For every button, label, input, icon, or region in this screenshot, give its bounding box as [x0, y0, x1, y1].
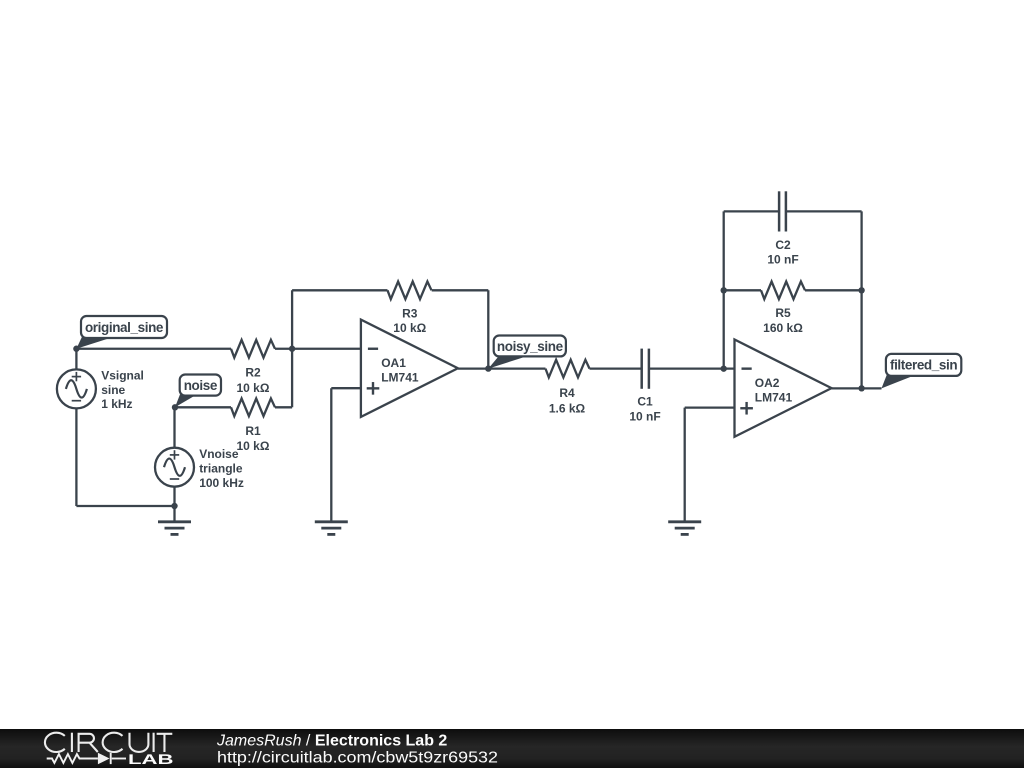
- wire Vsignal bottom: [75, 408, 77, 506]
- resistor R4: [546, 360, 590, 378]
- footer title text: [216, 732, 447, 749]
- wire OA2 right rail vertical: [860, 211, 862, 388]
- svg-text:Vsignal: Vsignal: [101, 368, 144, 382]
- node filtered_sin label: [882, 375, 917, 389]
- wire R5 right segment: [805, 289, 862, 291]
- svg-text:LM741: LM741: [381, 370, 419, 384]
- svg-text:10 nF: 10 nF: [629, 410, 660, 424]
- svg-text:OA2: OA2: [755, 376, 780, 390]
- svg-text:http://circuitlab.com/cbw5t9zr: http://circuitlab.com/cbw5t9zr69532: [217, 750, 498, 767]
- capacitor C2: [778, 191, 781, 231]
- wire Vnoise bottom: [173, 487, 175, 506]
- footer bar: [0, 729, 1024, 768]
- wire OA1 output: [458, 367, 546, 369]
- CircuitLab logo CIRCUIT text: [45, 733, 172, 752]
- svg-text:filtered_sin: filtered_sin: [890, 358, 957, 373]
- svg-text:10 kΩ: 10 kΩ: [237, 439, 270, 453]
- voltage source Vnoise: [155, 448, 194, 487]
- wire OA2 + to ground vertical: [684, 408, 686, 522]
- svg-text:R2: R2: [245, 366, 261, 380]
- node noisy_sine label: [488, 355, 530, 368]
- wire OA2 non-inverting input: [685, 406, 735, 408]
- wire OA1 non-inverting input: [331, 387, 361, 389]
- junction ground node: [171, 503, 177, 509]
- junction at R2 right / feedback node: [289, 346, 295, 352]
- junction original_sine node: [73, 346, 79, 352]
- svg-text:1.6 kΩ: 1.6 kΩ: [549, 401, 586, 415]
- wire R3 feedback top left: [292, 289, 387, 291]
- wire OA2 left rail vertical: [723, 211, 725, 368]
- wire R1 right segment: [275, 406, 292, 408]
- svg-text:LAB: LAB: [128, 751, 174, 767]
- svg-text:noise: noise: [184, 378, 218, 393]
- wire Vsignal top: [75, 349, 77, 370]
- wire Vnoise top: [173, 407, 175, 448]
- wire R2 to op-amp OA1 inverting input: [275, 348, 361, 350]
- svg-text:JamesRush / Electronics Lab 2: JamesRush / Electronics Lab 2: [216, 732, 447, 749]
- voltage source Vsignal: [57, 369, 96, 408]
- svg-text:1 kHz: 1 kHz: [101, 397, 132, 411]
- svg-text:R4: R4: [559, 386, 575, 400]
- footer url text: [217, 750, 498, 767]
- svg-text:sine: sine: [101, 383, 125, 397]
- junction noise node: [172, 404, 178, 410]
- junction R5 right: [858, 287, 864, 293]
- svg-text:OA1: OA1: [381, 356, 406, 370]
- wire bottom horizontal: [76, 505, 174, 507]
- wire ground stub: [173, 506, 175, 522]
- svg-text:original_sine: original_sine: [85, 320, 164, 335]
- node original_sine label: [76, 337, 114, 349]
- capacitor C1: [640, 349, 643, 389]
- junction OA2 inverting node: [721, 365, 727, 371]
- svg-text:triangle: triangle: [199, 462, 243, 476]
- node noise label: [175, 394, 197, 407]
- resistor R2: [231, 340, 275, 358]
- svg-text:R3: R3: [402, 307, 418, 321]
- svg-text:10 kΩ: 10 kΩ: [393, 321, 426, 335]
- wire OA2 output: [832, 387, 882, 389]
- svg-text:C1: C1: [637, 395, 653, 409]
- wire original_sine net to R2: [76, 348, 231, 350]
- wire C1 to OA2 inverting input: [649, 367, 735, 369]
- svg-text:LM741: LM741: [755, 390, 793, 404]
- svg-text:160 kΩ: 160 kΩ: [763, 321, 803, 335]
- resistor R3: [388, 282, 432, 300]
- wire R4 to C1: [590, 367, 642, 369]
- wire C2 top left: [724, 210, 779, 212]
- resistor R1: [231, 399, 275, 417]
- junction OA2 output node: [858, 385, 864, 391]
- wire C2 top right: [786, 210, 862, 212]
- svg-text:noisy_sine: noisy_sine: [497, 339, 564, 354]
- junction R5 left: [721, 287, 727, 293]
- svg-text:R1: R1: [245, 424, 261, 438]
- ground below OA2: [668, 520, 701, 523]
- wire R1 left segment: [175, 406, 231, 408]
- CircuitLab logo resistor-diode glyph: [47, 753, 126, 764]
- svg-text:10 kΩ: 10 kΩ: [237, 381, 270, 395]
- CircuitLab logo LAB text: [128, 751, 174, 767]
- resistor R5: [761, 282, 805, 300]
- wire feedback left vertical: [291, 290, 293, 407]
- svg-text:R5: R5: [775, 306, 791, 320]
- wire R3 feedback top right: [432, 289, 489, 291]
- op-amp OA1: [361, 320, 458, 417]
- wire R5 left segment: [724, 289, 761, 291]
- svg-text:Vnoise: Vnoise: [199, 447, 239, 461]
- op-amp OA2: [735, 340, 832, 437]
- wire OA1 + to ground vertical: [330, 388, 332, 521]
- svg-text:10 nF: 10 nF: [767, 253, 798, 267]
- ground below OA1: [315, 520, 348, 523]
- ground below Vnoise: [158, 520, 191, 523]
- junction noisy_sine node: [485, 365, 491, 371]
- wire feedback right vertical: [487, 290, 489, 368]
- svg-text:C2: C2: [775, 238, 791, 252]
- svg-text:100 kHz: 100 kHz: [199, 476, 244, 490]
